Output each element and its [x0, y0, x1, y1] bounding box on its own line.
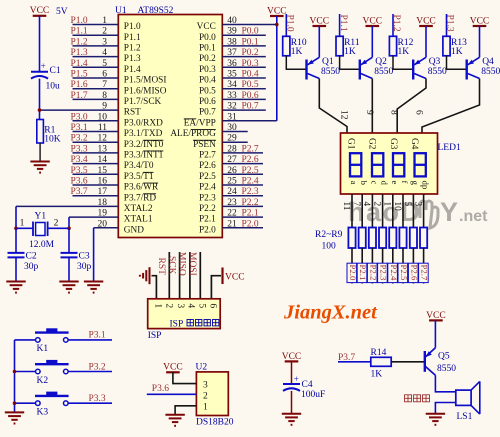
wire pin 7 / net label P1.6	[71, 80, 119, 90]
svg-text:14: 14	[98, 155, 108, 165]
svg-text:c: c	[369, 181, 379, 185]
wire LED segment pin 1	[392, 194, 394, 228]
wire pin 37 / net label P0.2	[222, 48, 265, 58]
svg-text:37: 37	[227, 48, 237, 58]
connector ISP label ISP下载端口	[170, 320, 219, 330]
svg-text:P2.4: P2.4	[242, 177, 259, 187]
net label MOSI rotated	[187, 252, 197, 276]
wire ISP pin6 to VCC	[211, 276, 221, 299]
transistor Q3 8550	[413, 57, 447, 79]
resistor segment P2.5	[399, 228, 406, 249]
svg-text:30: 30	[227, 123, 237, 133]
wire R14 to base Q5	[391, 361, 425, 363]
svg-text:6: 6	[207, 304, 217, 309]
display seven-segment digits	[350, 153, 426, 176]
svg-text:8550: 8550	[481, 67, 500, 77]
wire pin 2 / net label P1.1	[71, 27, 119, 37]
svg-text:34: 34	[227, 80, 237, 90]
net label P1.1 rotated	[338, 15, 348, 32]
resistor segment P2.0	[348, 228, 355, 249]
connector ISP pin numbers 1-6	[152, 304, 217, 309]
svg-text:1K: 1K	[291, 47, 303, 57]
svg-text:EA/VPP: EA/VPP	[184, 118, 216, 128]
resistor segment P2.4	[389, 228, 396, 249]
net label P1.3 rotated	[445, 15, 455, 32]
svg-text:4: 4	[185, 304, 195, 309]
svg-text:e: e	[390, 181, 400, 185]
svg-text:P0.2: P0.2	[242, 48, 259, 58]
svg-text:10: 10	[392, 202, 402, 212]
wire pin 35 / net label P0.4	[222, 70, 265, 80]
svg-text:K1: K1	[37, 344, 49, 354]
wire pin 27 / net label P2.6	[222, 155, 263, 165]
wire resistor to label P2.1	[361, 248, 363, 284]
resistor bank designator R2~R9	[315, 230, 343, 252]
svg-text:G2: G2	[367, 138, 377, 150]
wire U2 pin2 data	[147, 393, 197, 395]
svg-text:28: 28	[227, 144, 237, 154]
pin stub 29	[222, 134, 247, 144]
svg-text:23: 23	[227, 198, 237, 208]
svg-text:39: 39	[227, 27, 237, 37]
svg-text:Q3: Q3	[429, 57, 441, 67]
wire P3.7 to R14	[338, 361, 371, 363]
wire VCC to C4	[291, 361, 293, 384]
power VCC for Q4	[470, 16, 490, 26]
svg-text:7: 7	[351, 202, 361, 207]
svg-text:f: f	[400, 181, 410, 184]
wire emitter Q5 to VCC	[434, 320, 436, 347]
svg-text:27: 27	[227, 155, 237, 165]
svg-text:.net: .net	[459, 208, 488, 225]
svg-text:P0.3: P0.3	[242, 59, 259, 69]
svg-text:8550: 8550	[321, 67, 340, 77]
wire resistor to label P2.2	[371, 248, 373, 284]
resistor R11 1K	[336, 36, 360, 57]
svg-text:P3.1: P3.1	[71, 123, 88, 133]
transistor Q4 8550	[467, 57, 500, 79]
svg-text:P3.3: P3.3	[89, 394, 106, 404]
wire speaker to ground	[435, 403, 455, 414]
wire pin 11 / net label P3.1	[71, 123, 119, 133]
ground below R1	[30, 162, 49, 173]
svg-text:P1.4: P1.4	[124, 65, 141, 75]
svg-text:29: 29	[227, 134, 237, 144]
svg-text:40: 40	[227, 16, 237, 26]
svg-text:10K: 10K	[44, 135, 61, 145]
wire node to C2	[15, 228, 17, 253]
svg-text:3: 3	[203, 380, 208, 390]
svg-text:K2: K2	[37, 376, 49, 386]
wire pin 25 / net label P2.4	[222, 177, 263, 187]
svg-text:P0.2: P0.2	[199, 54, 216, 64]
pushbutton K2	[15, 360, 69, 386]
svg-text:8: 8	[389, 110, 399, 115]
ground below C2	[6, 282, 25, 293]
svg-text:P1.0: P1.0	[124, 22, 141, 32]
svg-text:P3.5: P3.5	[71, 166, 88, 176]
net label P1.0 rotated	[285, 15, 295, 32]
svg-text:K3: K3	[37, 408, 49, 418]
svg-text:P0.3: P0.3	[199, 65, 216, 75]
wire pin 18 XTAL2 to crystal left node	[16, 198, 118, 228]
IC U1 AT89S52 body	[118, 15, 222, 238]
svg-text:10u: 10u	[46, 81, 61, 91]
wire button bus vertical	[14, 340, 16, 412]
LED pin number 5 rotated	[402, 202, 412, 207]
svg-text:1K: 1K	[371, 369, 383, 379]
svg-text:P2.0: P2.0	[348, 265, 358, 281]
svg-text:SCK: SCK	[166, 256, 176, 275]
svg-text:U1: U1	[115, 6, 127, 16]
svg-text:5: 5	[196, 304, 206, 309]
svg-text:10: 10	[98, 112, 108, 122]
svg-text:G4: G4	[409, 138, 419, 150]
svg-text:P2.0: P2.0	[242, 219, 259, 229]
node button bus K3	[13, 401, 17, 405]
svg-text:2: 2	[203, 392, 208, 402]
LED pin number 2 rotated	[371, 202, 381, 207]
net label P2.7 rotated	[419, 263, 430, 282]
svg-text:P2.5: P2.5	[399, 265, 409, 281]
wire ISP MOSI	[199, 252, 201, 299]
svg-text:P0.4: P0.4	[199, 76, 216, 86]
svg-text:P2.3: P2.3	[199, 193, 216, 203]
wire pin 21 / net label P2.0	[222, 219, 263, 229]
wire R12 to base Q3	[393, 56, 413, 70]
svg-text:dp: dp	[421, 181, 431, 190]
power VCC for U2	[163, 363, 183, 373]
svg-text:P0.1: P0.1	[199, 44, 216, 54]
ground below speaker	[426, 414, 445, 425]
svg-text:13: 13	[98, 144, 108, 154]
wire collector Q1 to LED pin	[319, 79, 347, 134]
svg-text:P3.3/INT1: P3.3/INT1	[124, 151, 164, 161]
svg-text:P0.7: P0.7	[242, 102, 259, 112]
svg-text:P0.6: P0.6	[242, 91, 259, 101]
svg-text:P2.2: P2.2	[199, 204, 216, 214]
svg-text:P3.2: P3.2	[89, 362, 106, 372]
svg-text:VCC: VCC	[30, 6, 50, 16]
svg-text:P2.7: P2.7	[199, 151, 216, 161]
svg-text:VCC: VCC	[282, 352, 302, 362]
svg-text:3: 3	[175, 304, 185, 309]
pushbutton K3	[15, 392, 69, 418]
resistor R10 1K	[283, 36, 307, 57]
LED pin number 10 rotated	[392, 202, 402, 212]
svg-text:P2.1: P2.1	[358, 265, 368, 281]
svg-text:R14: R14	[371, 348, 387, 358]
svg-text:P2.6: P2.6	[199, 161, 216, 171]
wire resistor to label P2.3	[382, 248, 384, 284]
svg-text:MOSI: MOSI	[187, 252, 197, 276]
wire pin 16 / net label P3.6	[71, 177, 119, 187]
wire net stub to R12	[392, 14, 394, 36]
power VCC for Q3	[416, 16, 436, 26]
net label P3.7	[338, 353, 355, 363]
svg-text:b: b	[359, 181, 369, 186]
wire LED segment pin 3	[423, 194, 425, 228]
svg-text:P3.6/WR: P3.6/WR	[124, 183, 159, 193]
svg-text:P3.3: P3.3	[71, 144, 88, 154]
LED pin number 7 rotated	[351, 202, 361, 207]
svg-text:PSEN: PSEN	[193, 140, 216, 150]
speaker designator LS1	[457, 412, 473, 422]
svg-text:P3.7: P3.7	[71, 187, 88, 197]
resistor segment P2.2	[369, 228, 376, 249]
svg-text:P2.7: P2.7	[242, 144, 259, 154]
svg-text:P3.4: P3.4	[71, 155, 88, 165]
wire pin 33 / net label P0.6	[222, 91, 265, 101]
wire LED segment pin 4	[371, 194, 373, 228]
svg-text:C4: C4	[302, 380, 313, 390]
resistor R13 1K	[443, 36, 467, 57]
LED digit pin number 6 rotated	[414, 110, 424, 115]
svg-text:P2.3: P2.3	[242, 187, 259, 197]
svg-text:VCC: VCC	[426, 311, 446, 321]
net label P2.6 rotated	[408, 263, 419, 282]
wire pin 40 VCC to supply rail	[222, 16, 276, 26]
capacitor C2 30p	[8, 251, 39, 272]
capacitor C1 10u	[31, 61, 61, 91]
wire K1 to net label P3.1	[68, 331, 112, 341]
svg-text:2: 2	[371, 202, 381, 207]
wire pin 19 XTAL1 to crystal right node	[69, 209, 118, 229]
power VCC for Q1	[310, 16, 330, 26]
wire pin 5 / net label P1.4	[71, 59, 119, 69]
wire pin 24 / net label P2.3	[222, 187, 263, 197]
wire C3 to ground	[68, 257, 70, 281]
wire pin 36 / net label P0.3	[222, 59, 265, 69]
svg-text:5V: 5V	[56, 7, 68, 17]
display LED1 body	[341, 133, 438, 194]
svg-text:P3.2: P3.2	[71, 134, 88, 144]
display segment labels a-dp	[349, 181, 431, 190]
transistor Q2 8550	[360, 57, 394, 79]
wire collector Q3 to LED pin	[397, 79, 426, 134]
svg-text:P1.2: P1.2	[124, 44, 141, 54]
svg-text:P1.6: P1.6	[71, 80, 88, 90]
svg-text:g: g	[410, 181, 420, 186]
svg-text:1: 1	[20, 218, 25, 228]
wire pin 8 / net label P1.7	[71, 91, 119, 101]
svg-text:P0.5: P0.5	[199, 86, 216, 96]
IC U1 pin names	[124, 22, 216, 235]
svg-text:P1.6/MISO: P1.6/MISO	[124, 86, 167, 96]
svg-text:AT89S52: AT89S52	[138, 6, 174, 16]
connector ISP designator	[148, 331, 162, 341]
IC U1 designator	[115, 6, 127, 16]
svg-text:VCC: VCC	[416, 16, 436, 26]
resistor segment P2.7	[420, 228, 427, 249]
svg-text:P1.3: P1.3	[124, 54, 141, 64]
svg-text:8: 8	[102, 91, 107, 101]
svg-text:a: a	[349, 181, 359, 185]
wire resistor to label P2.6	[412, 248, 414, 284]
net label P2.4 rotated	[388, 263, 399, 282]
svg-text:P0.1: P0.1	[242, 37, 259, 47]
crystal Y1 12.0M	[20, 211, 59, 250]
svg-text:P1.5/MOSI: P1.5/MOSI	[124, 76, 167, 86]
svg-text:P2.4: P2.4	[389, 265, 399, 281]
transistor Q1 8550	[307, 57, 341, 79]
svg-text:24: 24	[227, 187, 237, 197]
capacitor C4 100uF	[283, 374, 325, 400]
svg-text:ISP: ISP	[148, 331, 162, 341]
svg-text:3: 3	[102, 37, 107, 47]
wire net stub to R10	[285, 14, 287, 36]
node RST junction	[38, 108, 42, 112]
svg-text:GND: GND	[124, 225, 144, 235]
svg-text:LED1: LED1	[438, 143, 461, 153]
wire pin 26 / net label P2.5	[222, 166, 263, 176]
wire LED segment pin 5	[412, 194, 414, 228]
wire emitter Q4 to VCC	[479, 26, 481, 57]
svg-text:18: 18	[98, 198, 108, 208]
wire ISP MISO	[189, 252, 191, 299]
wire net stub to R13	[446, 14, 448, 36]
svg-text:XTAL1: XTAL1	[124, 215, 153, 225]
svg-text:VCC: VCC	[197, 22, 216, 32]
svg-text:P2.5: P2.5	[242, 166, 259, 176]
svg-text:P1.7/SCK: P1.7/SCK	[124, 97, 162, 107]
resistor segment P2.6	[410, 228, 417, 249]
svg-text:XTAL2: XTAL2	[124, 204, 153, 214]
svg-text:P0.5: P0.5	[242, 80, 259, 90]
wire pin 23 / net label P2.2	[222, 198, 263, 208]
wire pin 3 / net label P1.2	[71, 37, 119, 47]
svg-text:8550: 8550	[428, 67, 447, 77]
wire pin 22 / net label P2.1	[222, 209, 263, 219]
svg-text:38: 38	[227, 37, 237, 47]
wire emitter Q3 to VCC	[425, 26, 427, 57]
svg-text:P3.2/INT0: P3.2/INT0	[124, 140, 164, 150]
svg-text:16: 16	[98, 177, 108, 187]
svg-text:P2.3: P2.3	[379, 265, 389, 281]
svg-text:P1.2: P1.2	[71, 37, 88, 47]
wire resistor to label P2.4	[392, 248, 394, 284]
wire pin 34 / net label P0.5	[222, 80, 265, 90]
IC U2 designator	[196, 362, 208, 372]
capacitor C3 30p	[61, 251, 92, 272]
power VCC rail symbol	[267, 6, 287, 16]
svg-text:P1.7: P1.7	[71, 91, 88, 101]
watermark haoDY.net	[348, 197, 488, 228]
resistor R1 10K	[37, 120, 61, 145]
net label P1.2 rotated	[391, 15, 401, 32]
svg-text:P1.4: P1.4	[71, 59, 88, 69]
speaker LS1	[456, 381, 480, 414]
svg-text:VCC: VCC	[470, 16, 490, 26]
svg-text:19: 19	[98, 209, 108, 219]
IC U1 part number AT89S52	[138, 6, 174, 16]
node crystal left	[14, 227, 18, 231]
wire R10 to base Q1	[286, 56, 306, 70]
svg-text:21: 21	[227, 219, 237, 229]
net label P2.2 rotated	[367, 263, 378, 282]
power VCC for Q5	[426, 311, 446, 321]
svg-text:RST: RST	[124, 108, 141, 118]
svg-text:8550: 8550	[374, 67, 393, 77]
wire pin 12 / net label P3.2	[71, 134, 119, 144]
wire VCC to C1	[39, 16, 41, 72]
wire resistor to label P2.0	[351, 248, 353, 284]
svg-text:P3.6: P3.6	[152, 384, 169, 394]
LED pin number 1 rotated	[382, 202, 392, 207]
node button bus K2	[13, 370, 17, 374]
svg-text:1K: 1K	[398, 47, 410, 57]
display LED1 designator	[438, 143, 461, 153]
ground below U2	[165, 415, 184, 426]
svg-text:12.0M: 12.0M	[29, 240, 55, 250]
svg-text:VCC: VCC	[310, 16, 330, 26]
svg-text:26: 26	[227, 166, 237, 176]
svg-text:P0.6: P0.6	[199, 97, 216, 107]
LED pin number 11 rotated	[341, 202, 351, 211]
svg-text:P1.0: P1.0	[71, 16, 88, 26]
svg-text:DS18B20: DS18B20	[196, 417, 234, 427]
svg-text:ISP: ISP	[170, 320, 184, 330]
svg-text:VCC: VCC	[267, 6, 287, 16]
svg-text:P2.5: P2.5	[199, 172, 216, 182]
wire pin 6 / net label P1.5	[71, 70, 119, 80]
svg-text:P1.3: P1.3	[71, 48, 88, 58]
svg-text:1: 1	[152, 304, 162, 309]
svg-text:Q1: Q1	[322, 57, 334, 67]
svg-text:P0.0: P0.0	[242, 27, 259, 37]
svg-text:G1: G1	[345, 138, 355, 150]
svg-text:30p: 30p	[24, 262, 39, 272]
svg-text:31: 31	[227, 112, 237, 122]
wire pin 13 / net label P3.3	[71, 144, 119, 154]
power VCC right-pointing at ISP pin6	[223, 268, 245, 285]
svg-text:C2: C2	[26, 251, 37, 261]
resistor R12 1K	[389, 36, 413, 57]
svg-text:2: 2	[163, 304, 173, 309]
power VCC for Q2	[363, 16, 383, 26]
svg-text:P1.1: P1.1	[124, 33, 141, 43]
wire U2 pin1 to ground	[175, 406, 196, 415]
wire resistor to label P2.7	[423, 248, 425, 284]
wire K2 to net label P3.2	[68, 362, 112, 372]
ground below C3	[59, 282, 78, 293]
svg-text:P2.2: P2.2	[368, 265, 378, 281]
wire VCC rail vertical	[276, 16, 278, 121]
svg-text:VCC: VCC	[163, 363, 183, 373]
wire R13 to base Q4	[447, 56, 467, 70]
svg-text:7: 7	[102, 80, 107, 90]
svg-text:15: 15	[98, 166, 108, 176]
wire LED segment pin 11	[351, 194, 353, 228]
node VCC pin40	[275, 23, 279, 27]
wire LED segment pin 10	[402, 194, 404, 228]
wire pin 38 / net label P0.1	[222, 37, 265, 47]
ground left-pointing at ISP pin1	[140, 267, 150, 284]
svg-text:11: 11	[341, 202, 351, 211]
svg-text:P0.0: P0.0	[199, 33, 216, 43]
display digit select labels G1-G4	[345, 138, 419, 150]
wire ISP SCK	[179, 252, 181, 299]
net label P3.6	[152, 384, 169, 394]
LED pin number 3 rotated	[412, 202, 422, 207]
svg-text:35: 35	[227, 70, 237, 80]
pin stub 30	[222, 123, 247, 133]
resistor segment P2.3	[379, 228, 386, 249]
wire emitter Q2 to VCC	[371, 26, 373, 57]
svg-text:C3: C3	[79, 251, 90, 261]
IC U2 part DS18B20	[196, 417, 234, 427]
svg-text:22: 22	[227, 209, 237, 219]
